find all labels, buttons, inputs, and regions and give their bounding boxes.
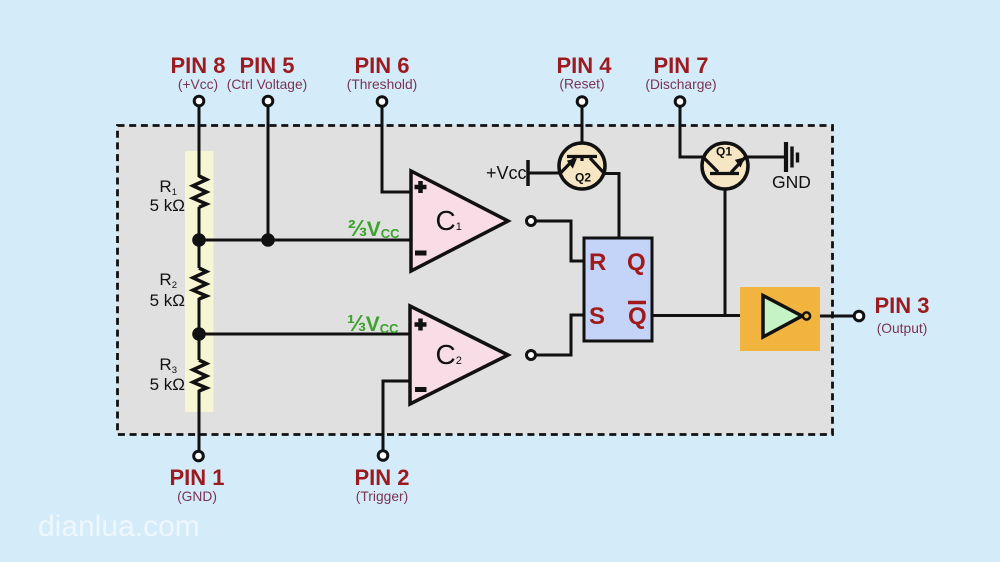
svg-text:5 kΩ: 5 kΩ <box>150 196 185 215</box>
svg-text:PIN 8: PIN 8 <box>170 53 225 78</box>
svg-text:Q1: Q1 <box>716 145 732 159</box>
svg-text:Q: Q <box>627 249 646 276</box>
svg-text:PIN 7: PIN 7 <box>653 53 708 78</box>
svg-text:(+Vcc): (+Vcc) <box>178 77 218 92</box>
svg-text:PIN 6: PIN 6 <box>354 53 409 78</box>
svg-text:(Output): (Output) <box>877 321 928 336</box>
svg-text:PIN 5: PIN 5 <box>239 53 294 78</box>
svg-text:(GND): (GND) <box>177 489 217 504</box>
svg-text:PIN 4: PIN 4 <box>556 53 612 78</box>
svg-text:+Vcc: +Vcc <box>486 163 527 183</box>
svg-text:GND: GND <box>772 172 811 192</box>
svg-text:Q2: Q2 <box>575 171 591 185</box>
svg-text:Q: Q <box>628 303 647 330</box>
svg-text:dianlua.com: dianlua.com <box>38 510 200 543</box>
svg-text:(Threshold): (Threshold) <box>347 77 418 92</box>
svg-text:5 kΩ: 5 kΩ <box>150 375 185 394</box>
svg-text:PIN 3: PIN 3 <box>874 293 929 318</box>
svg-text:(Trigger): (Trigger) <box>356 489 408 504</box>
svg-text:5 kΩ: 5 kΩ <box>150 291 185 310</box>
svg-text:PIN 1: PIN 1 <box>169 465 224 490</box>
svg-text:(Reset): (Reset) <box>559 77 604 92</box>
svg-text:S: S <box>589 303 605 330</box>
svg-text:PIN 2: PIN 2 <box>354 465 409 490</box>
svg-text:(Discharge): (Discharge) <box>645 77 716 92</box>
svg-text:(Ctrl Voltage): (Ctrl Voltage) <box>227 77 308 92</box>
svg-text:R: R <box>589 249 606 276</box>
